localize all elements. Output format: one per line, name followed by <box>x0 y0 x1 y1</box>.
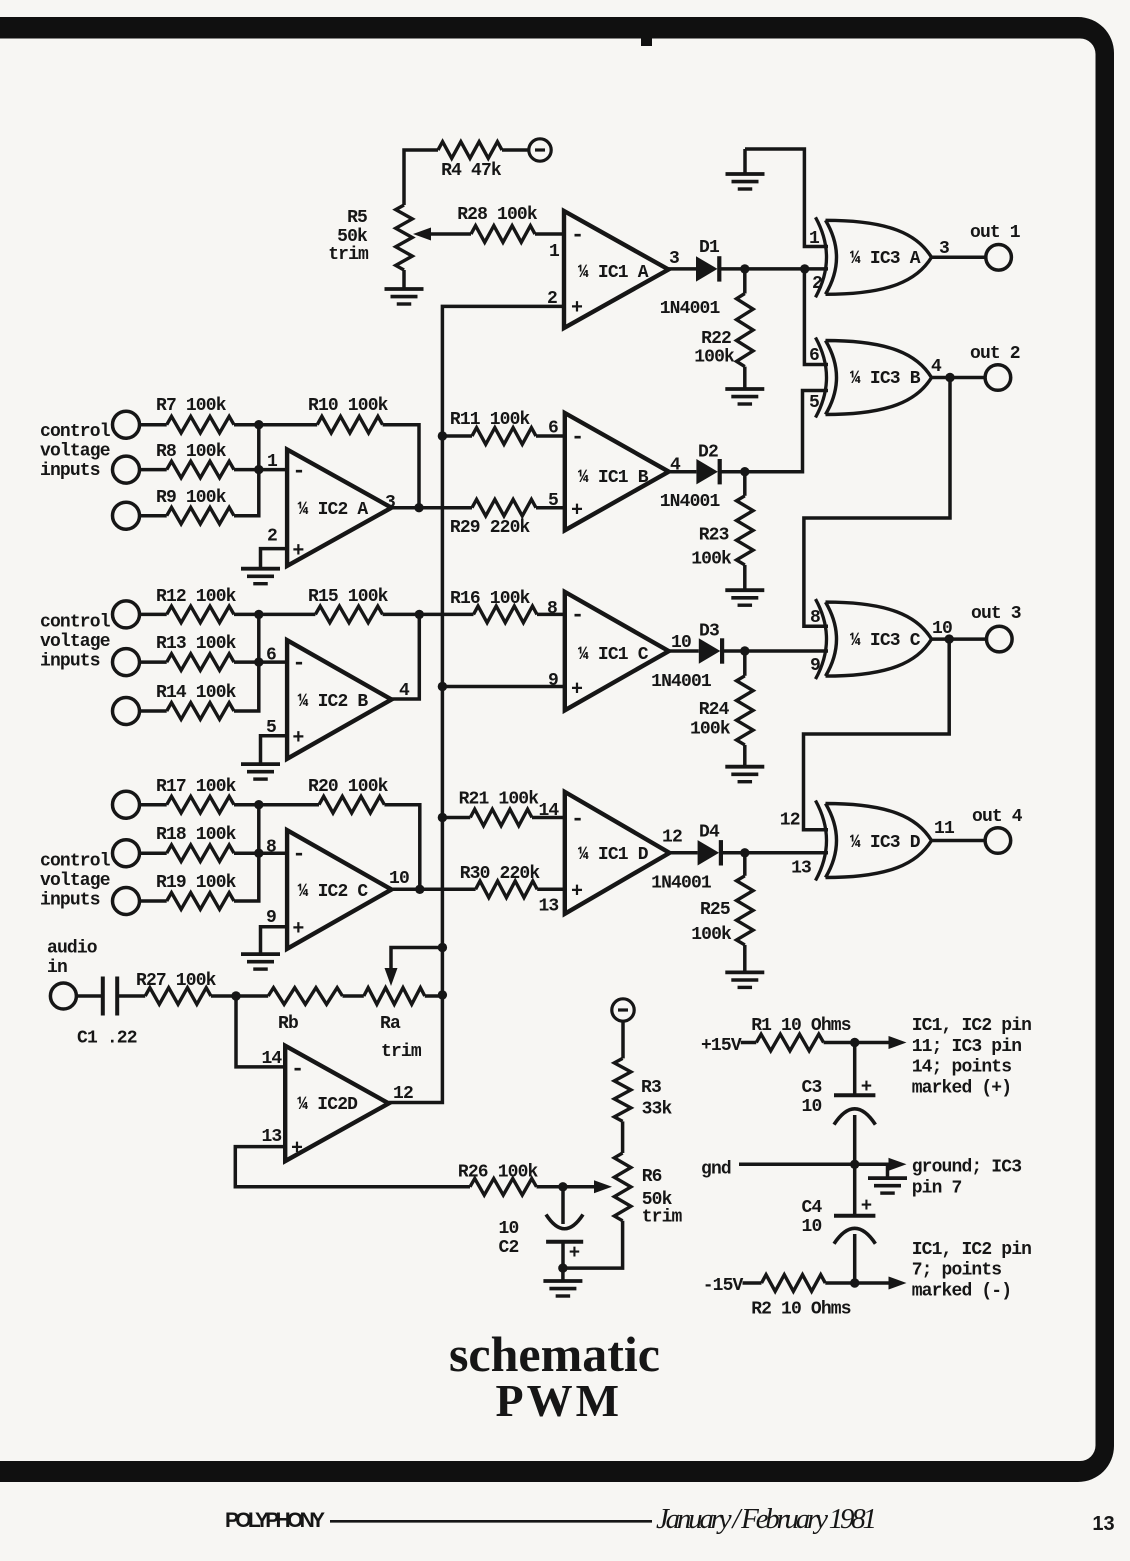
resistor R23 100k (pull-down) <box>737 496 754 565</box>
svg-text:-: - <box>571 425 583 450</box>
wire D4 node to IC3 D pin 13 <box>745 851 828 855</box>
svg-text:R10 100k: R10 100k <box>308 396 389 416</box>
footer rule <box>330 1520 652 1523</box>
svg-text:marked (-): marked (-) <box>912 1281 1012 1301</box>
wire to R9 <box>140 514 167 518</box>
wire R12 to node <box>234 613 259 617</box>
signal bus from IC2D output to IC1 A pin 2 <box>389 306 564 1102</box>
trimpot R6 50k (vertical) <box>614 1153 631 1221</box>
wire IC3 C output to out 3 <box>932 637 987 641</box>
svg-text:R24: R24 <box>699 700 730 720</box>
wire IC1 C output to D3 <box>669 649 699 653</box>
wire R22 top <box>743 269 747 294</box>
svg-text:100k: 100k <box>691 550 732 570</box>
wire node to IC2 C pin 8 input <box>259 851 287 855</box>
wire R1 to +V node <box>824 1041 855 1045</box>
svg-text:6: 6 <box>809 346 819 366</box>
ground below IC2 C <box>241 952 280 956</box>
ground below IC2 A <box>241 567 280 571</box>
resistor R10 100k feedback <box>317 416 382 433</box>
svg-text:R12 100k: R12 100k <box>156 587 237 607</box>
arrow -V distribution <box>855 1281 890 1285</box>
op-amp IC2 A <box>287 450 391 566</box>
wire to R14 <box>140 709 167 713</box>
terminal CV input 4 <box>113 601 140 628</box>
wire IC2 C output to R30 <box>392 888 476 892</box>
wire D1 cathode to node <box>720 267 745 271</box>
capacitor C3 flat plate <box>834 1093 875 1097</box>
resistor R27 100k <box>145 988 211 1005</box>
svg-text:-15V: -15V <box>703 1276 744 1296</box>
ground at top feeding IC3 A pin 1 <box>743 149 747 174</box>
svg-text:inputs: inputs <box>40 461 100 481</box>
resistor R17 100k <box>167 796 234 813</box>
wire R23 bottom to ground <box>743 565 747 590</box>
svg-text:in: in <box>47 958 67 978</box>
svg-text:¼ IC3 D: ¼ IC3 D <box>850 833 921 853</box>
svg-text:R8 100k: R8 100k <box>156 442 227 462</box>
svg-text:R22: R22 <box>701 329 731 349</box>
wire D1 node to IC3 A pin 2 node <box>745 267 805 271</box>
svg-text:-: - <box>292 459 304 484</box>
wire R26 to C2 node <box>537 1185 563 1189</box>
resistor R26 100k <box>470 1179 537 1196</box>
wire R4 left corner down to R5 <box>404 150 438 205</box>
wire -15V to R2 <box>743 1281 762 1285</box>
ground below R24 <box>725 765 764 769</box>
svg-text:control: control <box>40 613 111 633</box>
svg-text:100k: 100k <box>694 348 735 368</box>
svg-text:¼ IC1 C: ¼ IC1 C <box>578 645 649 665</box>
wire R9 up the summing bus <box>234 425 259 516</box>
svg-text:R27 100k: R27 100k <box>136 971 217 991</box>
wire D3 node to IC3 C pin 9 <box>745 649 828 653</box>
resistor R19 100k <box>167 893 234 910</box>
svg-text:10: 10 <box>802 1097 822 1117</box>
wire R18 to node <box>234 851 259 855</box>
svg-text:R20 100k: R20 100k <box>308 777 389 797</box>
wire node to IC2 A pin 1 <box>259 468 287 472</box>
wire node to Rb <box>236 994 268 998</box>
wire R24 top <box>743 651 747 676</box>
wire top ground to IC3 A pin 1 <box>745 149 828 247</box>
resistor R29 220k <box>472 499 536 516</box>
svg-text:12: 12 <box>662 827 682 847</box>
wire R3 bottom to R6 top <box>621 1121 625 1153</box>
wire +V node down to C3 <box>853 1043 857 1096</box>
op-amp comparator IC1 B <box>565 413 669 530</box>
svg-text:1: 1 <box>549 242 560 262</box>
junction audio summing node <box>231 991 240 1000</box>
svg-text:¼ IC2 B: ¼ IC2 B <box>298 692 369 712</box>
junction out 3 node <box>945 634 954 643</box>
wire to R12 <box>140 613 167 617</box>
resistor R8 100k <box>167 461 234 478</box>
wire R24 bottom to ground <box>743 745 747 767</box>
wire audio to C1 <box>76 994 101 998</box>
svg-text:POLYPHONY: POLYPHONY <box>225 1509 325 1532</box>
junction Ra end on bus <box>438 990 447 999</box>
svg-text:100k: 100k <box>691 925 732 945</box>
diode D2 1N4001 <box>696 459 718 484</box>
svg-text:R15 100k: R15 100k <box>308 587 389 607</box>
junction -V node <box>850 1278 859 1287</box>
svg-text:IC1, IC2 pin: IC1, IC2 pin <box>912 1016 1031 1036</box>
svg-text:D4: D4 <box>699 823 720 843</box>
op-amp IC2 C <box>287 830 391 949</box>
wiper arrow of Ra from bus <box>391 948 442 971</box>
wire out3 node down to IC3 D pin 12 <box>804 639 950 830</box>
svg-text:-: - <box>571 223 583 248</box>
svg-text:inputs: inputs <box>40 890 100 910</box>
svg-text:C3: C3 <box>802 1078 822 1098</box>
wire R25 top <box>743 853 747 876</box>
wire pin2 node down to IC3 B pin 6 <box>804 269 828 365</box>
svg-text:+: + <box>569 1242 580 1264</box>
wire to R7 <box>140 423 167 427</box>
terminal out 4 <box>985 828 1011 854</box>
wire IC1 D output to D4 <box>670 851 698 855</box>
wire IC2 B output node to R16 <box>419 613 473 617</box>
resistor R14 100k <box>167 703 234 720</box>
svg-text:6: 6 <box>266 646 276 666</box>
junction bus to R11 <box>438 431 447 440</box>
wire R10 to IC2 A output <box>383 425 419 508</box>
svg-text:¼ IC2 A: ¼ IC2 A <box>298 500 369 520</box>
svg-text:50k: 50k <box>337 227 368 247</box>
terminal out 2 <box>985 365 1011 391</box>
capacitor C1 .22 <box>101 977 105 1016</box>
terminal audio input <box>50 983 76 1009</box>
svg-text:R3: R3 <box>641 1078 661 1098</box>
junction D2 cathode node <box>740 467 749 476</box>
resistor R22 100k (pull-down) <box>737 294 754 367</box>
svg-text:out 2: out 2 <box>970 344 1020 364</box>
svg-text:control: control <box>40 422 111 442</box>
minus supply terminal (-15V) for R4 <box>529 139 551 161</box>
svg-text:9: 9 <box>810 656 820 676</box>
svg-text:-: - <box>291 1057 303 1082</box>
resistor R24 100k (pull-down) <box>737 676 754 745</box>
trimpot Ra (horizontal) <box>364 988 425 1005</box>
svg-text:D1: D1 <box>699 238 720 258</box>
wire gnd to ground node <box>739 1163 855 1167</box>
svg-text:7; points: 7; points <box>912 1261 1002 1281</box>
wire R12 node to R15 <box>259 613 316 617</box>
svg-text:33k: 33k <box>642 1100 673 1120</box>
svg-text:+: + <box>861 1076 872 1098</box>
wire minus terminal to R3 <box>621 1021 625 1058</box>
svg-text:+: + <box>292 727 304 750</box>
svg-text:¼ IC3 A: ¼ IC3 A <box>850 249 921 269</box>
svg-text:D3: D3 <box>699 622 719 642</box>
svg-text:R21 100k: R21 100k <box>459 790 540 810</box>
svg-text:10: 10 <box>802 1217 822 1237</box>
xor gate IC3 C <box>816 599 827 679</box>
svg-text:8: 8 <box>547 599 557 619</box>
svg-text:9: 9 <box>548 671 558 691</box>
resistor R25 100k (pull-down) <box>737 876 754 945</box>
wiper arrow into R6 <box>563 1185 596 1189</box>
wire IC1 B output to D2 <box>669 470 697 474</box>
arrow ground distribution <box>855 1163 890 1167</box>
svg-text:out 4: out 4 <box>972 807 1023 827</box>
wire D4 cathode to node <box>721 851 745 855</box>
wire D2 cathode to node <box>720 470 745 474</box>
wire R16 to IC1 C pin 8 <box>537 613 565 617</box>
capacitor C4 flat plate <box>834 1214 875 1218</box>
svg-text:14; points: 14; points <box>912 1058 1012 1078</box>
resistor R4 47k <box>438 142 502 159</box>
resistor R28 100k <box>471 226 535 243</box>
wire R8 to node <box>234 468 259 472</box>
op-amp comparator IC1 C <box>565 592 669 710</box>
wire R23 top <box>743 472 747 496</box>
svg-text:13: 13 <box>791 859 811 879</box>
svg-text:-: - <box>571 603 583 628</box>
svg-text:10: 10 <box>389 869 409 889</box>
svg-text:out 1: out 1 <box>970 223 1021 243</box>
svg-text:+15V: +15V <box>701 1036 742 1056</box>
capacitor C2 curved plate <box>546 1215 583 1229</box>
svg-text:+: + <box>291 1138 303 1161</box>
svg-text:10: 10 <box>499 1219 519 1239</box>
wire bus junction to R11 <box>442 434 472 438</box>
arrow +V distribution <box>855 1041 890 1045</box>
junction out 2 node <box>945 373 954 382</box>
svg-text:R29 220k: R29 220k <box>450 518 531 538</box>
svg-text:¼ IC3 B: ¼ IC3 B <box>850 369 921 389</box>
wire C2 to ground node <box>561 1242 565 1268</box>
junction bus to IC1 C pin 9 <box>438 682 447 691</box>
wire +15V to R1 <box>741 1041 757 1045</box>
terminal CV input 1 <box>113 411 140 438</box>
wire R17 to node <box>234 803 259 807</box>
capacitor C2 flat plate <box>546 1240 583 1244</box>
svg-text:1N4001: 1N4001 <box>651 873 712 893</box>
resistor R9 100k <box>167 507 234 524</box>
junction R12/R15 node <box>254 610 263 619</box>
wire R27 to audio node <box>211 994 236 998</box>
resistor R16 100k <box>474 606 538 623</box>
wire bus to R21 and to IC1 D pin 14 <box>442 816 470 820</box>
junction IC2 B inverting node <box>254 657 263 666</box>
svg-text:out 3: out 3 <box>971 604 1021 624</box>
svg-text:January / February 1981: January / February 1981 <box>656 1503 877 1535</box>
resistor R13 100k <box>167 654 234 671</box>
svg-text:audio: audio <box>47 939 97 959</box>
svg-text:3: 3 <box>385 493 395 513</box>
wire C3 to ground node <box>853 1115 857 1164</box>
junction +V node <box>850 1038 859 1047</box>
wire IC3 B output to out 2 <box>932 376 986 380</box>
svg-text:PWM: PWM <box>496 1375 623 1426</box>
junction D4 cathode node <box>740 848 749 857</box>
junction IC2 C inverting node <box>254 849 263 858</box>
svg-text:voltage: voltage <box>40 441 110 461</box>
diode D3 1N4001 <box>699 638 721 663</box>
svg-text:-: - <box>292 651 304 676</box>
svg-text:ground; IC3: ground; IC3 <box>912 1158 1022 1178</box>
svg-text:12: 12 <box>780 811 800 831</box>
terminal CV input 8 <box>113 840 140 867</box>
wire audio node down to IC2D pin 14 <box>236 996 285 1067</box>
svg-text:R28 100k: R28 100k <box>457 205 538 225</box>
svg-text:C1 .22: C1 .22 <box>77 1029 137 1049</box>
junction IC3 A pin 2 node <box>800 264 809 273</box>
svg-text:control: control <box>40 852 111 872</box>
wire D2 node up to IC3 B pin 5 <box>745 391 828 472</box>
wire Ra right end to bus <box>425 994 443 998</box>
wire to R17 <box>140 803 167 807</box>
svg-text:marked (+): marked (+) <box>912 1078 1012 1098</box>
wire R29 to IC1 B pin 5 <box>536 506 565 510</box>
junction IC2 A inverting node <box>254 465 263 474</box>
wire bus to IC1 C pin 9 <box>442 685 564 689</box>
trimpot R5 50k (vertical) <box>396 205 413 270</box>
ground below R25 <box>725 971 764 975</box>
svg-text:1: 1 <box>809 229 820 249</box>
svg-text:8: 8 <box>810 608 820 628</box>
junction R26/C2/R6-wiper node <box>558 1182 567 1191</box>
svg-text:Ra: Ra <box>380 1014 401 1034</box>
terminal CV input 5 <box>113 649 140 676</box>
svg-text:R30 220k: R30 220k <box>460 864 541 884</box>
wire R28 to IC1 A pin 1 <box>535 232 564 236</box>
svg-text:¼ IC2 C: ¼ IC2 C <box>298 882 369 902</box>
junction bus to R21 <box>438 813 447 822</box>
ground below R5 <box>385 287 424 291</box>
svg-text:3: 3 <box>669 249 679 269</box>
wire C4 to -V node <box>853 1234 857 1283</box>
svg-text:6: 6 <box>548 419 558 439</box>
wire R17 node to R20 <box>259 803 319 807</box>
wire R25 bottom to ground <box>743 945 747 973</box>
svg-text:R6: R6 <box>642 1167 662 1187</box>
svg-text:R11 100k: R11 100k <box>450 410 531 430</box>
svg-text:-: - <box>571 807 583 832</box>
terminal out 3 <box>987 626 1013 652</box>
wiper arrow of R5 from R28 <box>425 232 471 236</box>
svg-text:gnd: gnd <box>701 1160 731 1180</box>
terminal CV input 6 <box>113 698 140 725</box>
svg-text:12: 12 <box>393 1084 413 1104</box>
wire IC2 A output to R29 <box>392 506 473 510</box>
resistor R20 100k feedback <box>319 796 384 813</box>
wire R4 right to minus terminal <box>502 148 529 152</box>
junction R15/R16/IC2B output node <box>415 610 424 619</box>
svg-text:+: + <box>861 1195 872 1217</box>
resistor R2 10 Ohms <box>762 1275 826 1292</box>
svg-text:¼ IC1 D: ¼ IC1 D <box>578 845 649 865</box>
junction D3 cathode node <box>740 646 749 655</box>
wire R7 node to R10 <box>259 423 317 427</box>
junction R7/R10 node <box>254 420 263 429</box>
wire out2 node down to IC3 C pin 8 <box>804 378 950 627</box>
svg-text:R23: R23 <box>699 526 729 546</box>
svg-text:+: + <box>571 500 583 523</box>
junction IC2 A output node <box>414 503 423 512</box>
svg-text:R9 100k: R9 100k <box>156 488 227 508</box>
svg-text:R2 10 Ohms: R2 10 Ohms <box>751 1300 851 1320</box>
wire R20 down to IC2 C output node <box>384 805 419 890</box>
svg-text:1N4001: 1N4001 <box>660 492 721 512</box>
svg-text:13: 13 <box>261 1127 281 1147</box>
svg-text:¼ IC2D: ¼ IC2D <box>297 1095 358 1115</box>
svg-text:11; IC3 pin: 11; IC3 pin <box>912 1037 1022 1057</box>
wire ground node down to C4 <box>853 1164 857 1216</box>
svg-text:R5: R5 <box>347 208 367 228</box>
svg-text:trim: trim <box>328 245 369 265</box>
ground below IC2 B <box>241 762 280 766</box>
svg-text:¼ IC1 A: ¼ IC1 A <box>578 263 649 283</box>
junction R17/R20 node <box>254 800 263 809</box>
terminal CV input 3 <box>113 502 140 529</box>
junction IC2 C output node <box>415 885 424 894</box>
op-amp comparator IC1 A <box>564 211 669 328</box>
wire IC3 A output to out 1 <box>932 256 986 260</box>
svg-text:R26 100k: R26 100k <box>458 1162 539 1182</box>
terminal out 1 <box>986 244 1012 270</box>
svg-text:inputs: inputs <box>40 651 100 671</box>
svg-text:14: 14 <box>261 1049 282 1069</box>
svg-text:trim: trim <box>642 1208 683 1228</box>
xor gate IC3 D <box>816 801 827 881</box>
diode D4 1N4001 <box>698 840 720 865</box>
svg-text:1N4001: 1N4001 <box>660 299 721 319</box>
svg-text:¼ IC1 B: ¼ IC1 B <box>578 468 649 488</box>
ground symbol at power section <box>886 1164 890 1178</box>
wire R15 to IC2 B output node <box>383 613 420 617</box>
svg-text:R1 10 Ohms: R1 10 Ohms <box>751 1016 851 1036</box>
terminal CV input 7 <box>113 791 140 818</box>
svg-text:11: 11 <box>934 819 955 839</box>
svg-text:13: 13 <box>538 896 558 916</box>
wire IC2D pin 13 feedback to R26 node <box>235 1147 470 1187</box>
resistor R30 220k <box>476 881 538 898</box>
resistor R3 33k <box>614 1058 631 1121</box>
svg-text:2: 2 <box>267 526 277 546</box>
xor gate IC3 B <box>816 338 827 418</box>
svg-text:R7 100k: R7 100k <box>156 396 227 416</box>
diode D1 1N4001 <box>696 256 718 281</box>
svg-text:R4 47k: R4 47k <box>441 161 502 181</box>
wire Rb to Ra <box>343 994 364 998</box>
wire to R18 <box>140 851 167 855</box>
svg-text:-: - <box>292 842 304 867</box>
op-amp comparator IC1 D <box>565 792 670 914</box>
wire R7 to node <box>234 423 259 427</box>
wire R2 to -V node <box>825 1281 854 1285</box>
resistor R7 100k <box>167 416 234 433</box>
resistor R18 100k <box>167 845 234 862</box>
wire node to IC2 B pin 6 input <box>259 660 287 664</box>
svg-text:13: 13 <box>1092 1513 1114 1535</box>
resistor R1 10 Ohms <box>756 1034 823 1051</box>
ground below R22 <box>725 387 764 391</box>
svg-text:¼ IC3 C: ¼ IC3 C <box>850 631 921 651</box>
wire R22 bottom to ground <box>743 367 747 389</box>
svg-text:+: + <box>571 297 583 320</box>
xor gate IC3 A <box>816 217 827 297</box>
svg-text:5: 5 <box>548 491 558 511</box>
svg-text:14: 14 <box>538 801 559 821</box>
wire C1 to R27 <box>117 994 145 998</box>
svg-text:R19 100k: R19 100k <box>156 873 237 893</box>
svg-text:1: 1 <box>267 452 278 472</box>
svg-text:C4: C4 <box>802 1198 823 1218</box>
wire to R13 <box>140 660 167 664</box>
